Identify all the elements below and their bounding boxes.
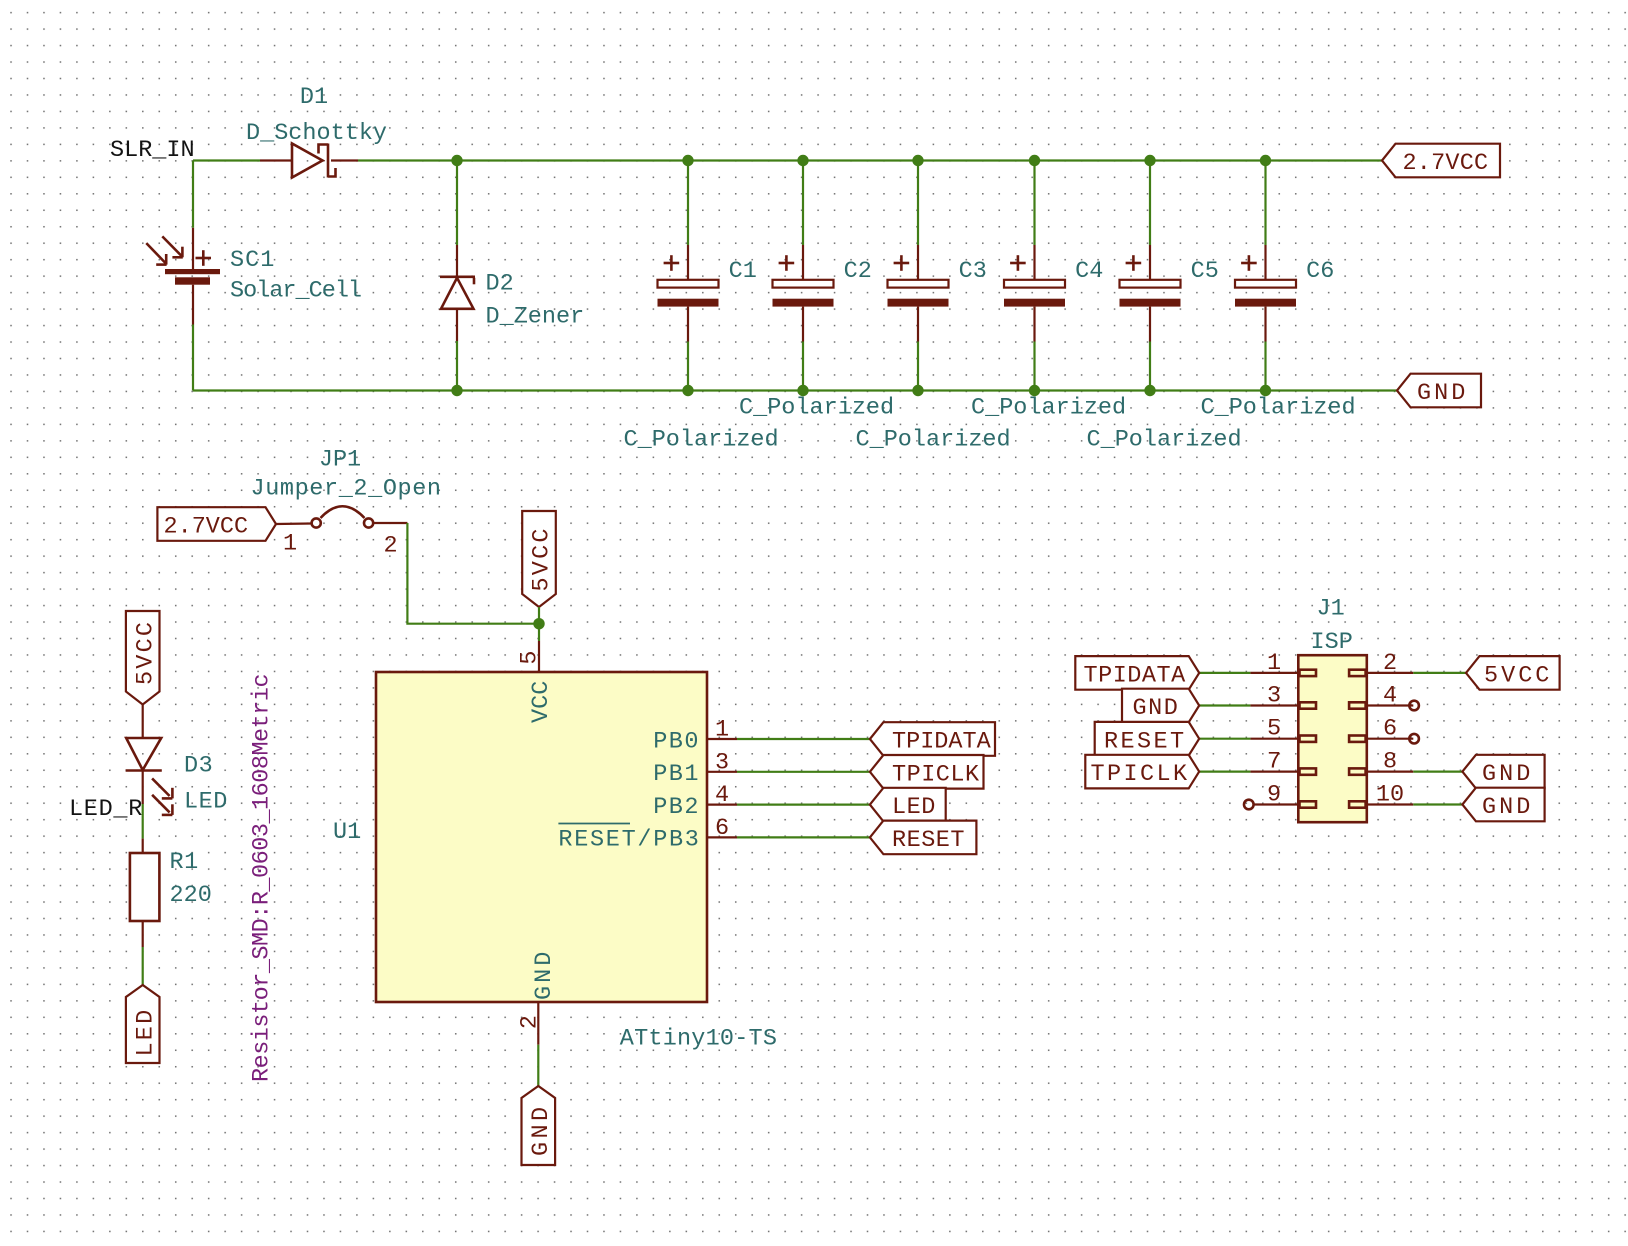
svg-text:U1: U1 <box>333 819 361 846</box>
wire <box>537 1045 539 1086</box>
svg-text:R1: R1 <box>170 849 199 876</box>
svg-text:LED: LED <box>892 794 936 821</box>
wire <box>917 342 919 391</box>
svg-text:10: 10 <box>1376 782 1404 809</box>
pin 5 <box>1250 738 1298 740</box>
net label TPIDATA <box>870 722 995 756</box>
svg-text:C_Polarized: C_Polarized <box>1201 395 1356 422</box>
junction <box>451 385 462 396</box>
wire <box>687 342 689 391</box>
svg-text:4: 4 <box>1383 683 1397 710</box>
svg-text:5VCC: 5VCC <box>529 526 556 591</box>
no-connect circle pin 6 <box>1409 734 1419 744</box>
pin 8 <box>1367 770 1414 772</box>
wire <box>192 161 194 228</box>
svg-text:C_Polarized: C_Polarized <box>739 395 894 422</box>
junction <box>912 155 923 166</box>
svg-text:C_Polarized: C_Polarized <box>971 395 1126 422</box>
LED D3 <box>126 705 173 815</box>
svg-text:Resistor_SMD:R_0603_1608Metric: Resistor_SMD:R_0603_1608Metric <box>249 674 276 1082</box>
pin 6 <box>707 836 737 838</box>
net label TPICLK <box>1085 755 1199 789</box>
net label LED <box>126 985 160 1063</box>
net label RESET <box>1095 722 1200 756</box>
wire <box>737 738 870 740</box>
net label 5VCC <box>1466 656 1560 690</box>
wire <box>142 947 144 985</box>
solar cell SC1 <box>146 228 220 325</box>
svg-text:2: 2 <box>517 1015 544 1029</box>
svg-text:RESET/PB3: RESET/PB3 <box>558 827 700 854</box>
svg-text:D_Zener: D_Zener <box>486 303 585 330</box>
svg-text:2.7VCC: 2.7VCC <box>164 514 249 541</box>
wire <box>687 161 689 246</box>
capacitor C4 <box>1004 245 1065 342</box>
svg-text:7: 7 <box>1267 749 1281 776</box>
svg-text:C6: C6 <box>1306 258 1334 285</box>
wire <box>193 389 1397 391</box>
wire <box>1199 738 1250 740</box>
svg-text:D1: D1 <box>300 84 328 111</box>
svg-text:LED: LED <box>132 1008 159 1057</box>
pin 4 <box>1367 704 1414 706</box>
svg-text:J1: J1 <box>1316 596 1344 623</box>
wire <box>1199 672 1250 674</box>
wire <box>193 159 260 161</box>
svg-text:Solar_Cell: Solar_Cell <box>230 278 361 305</box>
svg-text:C3: C3 <box>959 258 987 285</box>
wire <box>1149 342 1151 391</box>
pin 2 <box>1367 672 1414 674</box>
svg-text:PB2: PB2 <box>653 794 700 821</box>
net label 2.7VCC <box>157 507 276 541</box>
svg-text:6: 6 <box>1383 716 1397 743</box>
svg-text:RESET: RESET <box>892 827 965 854</box>
wire <box>1413 803 1462 805</box>
wire <box>192 325 194 391</box>
connector pin stubs <box>1300 670 1366 808</box>
svg-text:C1: C1 <box>729 258 757 285</box>
svg-text:220: 220 <box>170 882 212 909</box>
net label TPICLK <box>870 755 984 789</box>
junction <box>1144 385 1155 396</box>
svg-text:LED_R: LED_R <box>69 796 143 823</box>
no-connect circle pin 4 <box>1409 701 1419 711</box>
net label GND <box>1122 689 1199 723</box>
wire <box>456 161 458 246</box>
svg-text:5: 5 <box>517 650 544 664</box>
capacitor C5 <box>1120 245 1181 342</box>
svg-text:GND: GND <box>1482 794 1533 821</box>
connector J1 body <box>1298 655 1367 822</box>
diode D1 D_Schottky <box>260 144 358 178</box>
junction <box>682 155 693 166</box>
wire <box>456 341 458 391</box>
capacitor C6 <box>1235 245 1296 342</box>
svg-text:TPICLK: TPICLK <box>892 761 980 788</box>
svg-text:GND: GND <box>1133 695 1180 722</box>
wire <box>538 624 540 641</box>
svg-text:GND: GND <box>528 1103 555 1156</box>
svg-text:SLR_IN: SLR_IN <box>110 137 195 164</box>
wire <box>1033 342 1035 391</box>
wire <box>737 803 870 805</box>
svg-text:C_Polarized: C_Polarized <box>624 427 779 454</box>
svg-text:1: 1 <box>1267 650 1281 677</box>
power label 5VCC <box>126 611 160 705</box>
svg-text:RESET: RESET <box>1104 728 1187 755</box>
svg-text:D3: D3 <box>184 753 213 780</box>
svg-text:C5: C5 <box>1191 258 1219 285</box>
resistor R1 <box>130 839 160 947</box>
net label GND <box>1462 755 1544 789</box>
wire <box>407 523 539 624</box>
svg-text:6: 6 <box>715 815 729 842</box>
wire <box>1413 770 1462 772</box>
junction <box>1029 385 1040 396</box>
svg-text:C2: C2 <box>844 258 872 285</box>
svg-text:GND: GND <box>531 949 558 1000</box>
svg-text:5VCC: 5VCC <box>132 620 159 685</box>
pin 6 <box>1367 738 1414 740</box>
wire <box>1199 704 1250 706</box>
wire <box>802 161 804 246</box>
svg-text:TPICLK: TPICLK <box>1091 761 1190 788</box>
pin 10 <box>1367 803 1414 805</box>
wire <box>1413 672 1466 674</box>
svg-text:ATtiny10-TS: ATtiny10-TS <box>620 1026 777 1053</box>
junction <box>1029 155 1040 166</box>
junction <box>797 385 808 396</box>
power label GND <box>522 1086 556 1165</box>
net label GND <box>1397 374 1481 408</box>
net label LED <box>870 788 946 822</box>
svg-text:Jumper_2_Open: Jumper_2_Open <box>251 476 442 503</box>
svg-text:2: 2 <box>1383 650 1397 677</box>
wire <box>1199 770 1250 772</box>
junction <box>1260 385 1271 396</box>
wire <box>1149 161 1151 246</box>
svg-text:1: 1 <box>283 531 297 558</box>
svg-text:PB0: PB0 <box>653 728 700 755</box>
svg-text:5VCC: 5VCC <box>1484 663 1552 690</box>
svg-text:9: 9 <box>1267 782 1281 809</box>
svg-text:PB1: PB1 <box>653 761 700 788</box>
svg-text:ISP: ISP <box>1311 629 1353 656</box>
overline RESET <box>558 823 630 825</box>
no-connect circle pin 9 <box>1244 800 1254 810</box>
svg-text:2.7VCC: 2.7VCC <box>1403 150 1489 177</box>
junction <box>682 385 693 396</box>
svg-text:1: 1 <box>715 717 729 744</box>
svg-text:D_Schottky: D_Schottky <box>246 120 387 147</box>
svg-text:4: 4 <box>715 782 729 809</box>
wire <box>358 159 1382 161</box>
zener diode D2 D_Zener <box>440 245 475 341</box>
pin 1 <box>1250 672 1298 674</box>
svg-text:5: 5 <box>1267 716 1281 743</box>
svg-text:GND: GND <box>1417 380 1468 407</box>
wire <box>802 342 804 391</box>
pin 3 <box>707 771 737 773</box>
svg-text:GND: GND <box>1482 761 1533 788</box>
wire <box>1033 161 1035 246</box>
pin 1 <box>707 738 737 740</box>
svg-text:LED: LED <box>184 789 228 816</box>
svg-text:2: 2 <box>383 533 397 560</box>
net label 2.7VCC <box>1382 144 1500 178</box>
svg-text:VCC: VCC <box>528 681 555 723</box>
pin 2 GND <box>537 1002 539 1045</box>
junction <box>797 155 808 166</box>
wire <box>917 161 919 246</box>
junction <box>1260 155 1271 166</box>
wire <box>737 836 870 838</box>
wire <box>737 771 870 773</box>
capacitor C2 <box>773 245 834 342</box>
wire <box>142 804 144 839</box>
net label GND <box>1462 788 1544 822</box>
IC U1 ATtiny10-TS body <box>376 672 707 1002</box>
svg-text:C4: C4 <box>1075 258 1103 285</box>
svg-text:TPIDATA: TPIDATA <box>892 729 992 756</box>
wire <box>538 607 540 624</box>
junction <box>1144 155 1155 166</box>
svg-text:C_Polarized: C_Polarized <box>1087 427 1242 454</box>
junction <box>533 618 544 629</box>
net label TPIDATA <box>1075 656 1199 690</box>
pin 9 <box>1254 803 1299 805</box>
svg-text:SC1: SC1 <box>230 247 275 274</box>
pin 3 <box>1250 704 1298 706</box>
net label RESET <box>870 821 977 855</box>
svg-text:TPIDATA: TPIDATA <box>1084 663 1187 690</box>
wire <box>1264 161 1266 246</box>
capacitor C3 <box>888 245 949 342</box>
power label 5VCC <box>522 511 556 607</box>
svg-text:D2: D2 <box>486 271 514 298</box>
svg-text:JP1: JP1 <box>319 447 361 474</box>
svg-text:3: 3 <box>715 749 729 776</box>
pin 5 VCC <box>538 641 540 672</box>
svg-text:3: 3 <box>1267 683 1281 710</box>
svg-text:C_Polarized: C_Polarized <box>856 427 1011 454</box>
pin 4 <box>707 803 737 805</box>
capacitor C1 <box>658 245 719 342</box>
pin 7 <box>1250 770 1298 772</box>
jumper JP1 <box>276 506 407 527</box>
junction <box>912 385 923 396</box>
svg-text:8: 8 <box>1383 749 1397 776</box>
wire <box>1264 342 1266 391</box>
junction <box>451 155 462 166</box>
